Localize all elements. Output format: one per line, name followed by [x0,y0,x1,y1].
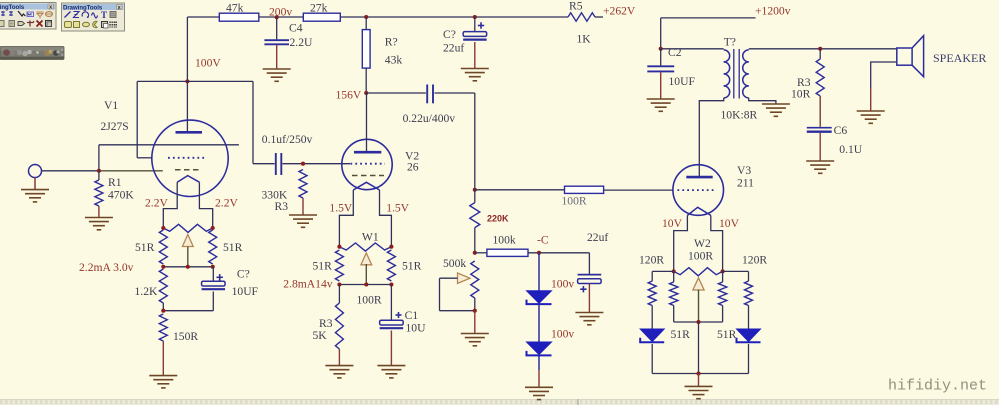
svg-text:100R: 100R [357,293,382,306]
svg-text:V3: V3 [737,164,751,177]
svg-text:W2: W2 [694,237,711,250]
svg-text:220K: 220K [487,214,509,224]
svg-text:2.2mA 3.0v: 2.2mA 3.0v [79,261,134,274]
svg-text:5K: 5K [313,329,328,342]
svg-text:2.2U: 2.2U [290,36,313,49]
svg-text:51R: 51R [313,260,333,273]
svg-text:100R: 100R [562,195,587,208]
svg-text:22uf: 22uf [587,231,608,244]
svg-text:DrawingTools: DrawingTools [0,5,25,11]
svg-text:R5: R5 [569,0,583,13]
svg-text:150R: 150R [173,330,198,343]
svg-text:1.2K: 1.2K [135,285,158,298]
svg-text:0.1uf/250v: 0.1uf/250v [262,133,313,146]
svg-text:R3: R3 [275,200,289,213]
svg-text:27k: 27k [310,2,328,15]
svg-text:C6: C6 [834,124,848,137]
svg-text:2.2V: 2.2V [215,197,238,210]
svg-text:100k: 100k [493,234,516,247]
svg-text:100v: 100v [551,327,574,340]
svg-text:100v: 100v [551,278,574,291]
svg-text:200v: 200v [269,6,292,19]
svg-text:2J27S: 2J27S [101,121,129,133]
svg-text:+1200v: +1200v [755,5,791,18]
svg-text:2.2V: 2.2V [145,197,168,210]
svg-text:51R: 51R [223,241,243,254]
svg-text:+262V: +262V [603,5,636,18]
svg-text:47k: 47k [226,2,244,15]
svg-text:T?: T? [724,35,736,48]
svg-text:1.5V: 1.5V [386,202,409,215]
svg-text:SPEAKER: SPEAKER [933,51,986,65]
svg-text:C4: C4 [289,22,303,35]
svg-text:10UF: 10UF [232,285,259,298]
svg-text:0.1U: 0.1U [839,143,862,156]
svg-text:51R: 51R [671,328,691,341]
svg-text:51R: 51R [135,241,155,254]
svg-text:-C: -C [537,234,549,247]
svg-text:470K: 470K [108,189,134,202]
svg-text:R1: R1 [108,176,122,189]
svg-text:100R: 100R [688,250,713,263]
svg-text:10V: 10V [719,217,740,230]
svg-text:10V: 10V [662,217,683,230]
svg-text:51R: 51R [717,328,737,341]
svg-text:0.22u/400v: 0.22u/400v [403,112,456,125]
svg-text:C1: C1 [405,309,419,322]
svg-text:W1: W1 [362,231,379,244]
svg-text:120R: 120R [742,254,767,267]
svg-text:22uf: 22uf [443,42,464,55]
svg-text:10R: 10R [791,88,811,101]
svg-text:10UF: 10UF [669,75,696,88]
svg-text:1K: 1K [577,33,592,46]
svg-text:211: 211 [737,177,754,190]
svg-text:10U: 10U [406,322,427,335]
svg-text:500k: 500k [443,257,466,270]
svg-text:156V: 156V [336,89,362,102]
svg-text:10K:8R: 10K:8R [721,109,758,122]
svg-text:T: T [101,10,107,20]
svg-text:hifidiy.net: hifidiy.net [888,378,987,395]
svg-text:C2: C2 [668,46,682,59]
svg-text:R?: R? [385,36,398,49]
svg-text:120R: 120R [639,254,664,267]
svg-text:26: 26 [407,161,419,174]
svg-text:100V: 100V [195,57,221,70]
svg-text:DrawingTools: DrawingTools [63,5,103,11]
svg-text:51R: 51R [402,260,422,273]
svg-text:V1: V1 [104,99,118,112]
svg-text:43k: 43k [385,54,403,67]
svg-text:1.5V: 1.5V [329,202,352,215]
svg-text:2.8mA14v: 2.8mA14v [283,277,332,290]
svg-text:C?: C? [237,268,250,281]
svg-text:C?: C? [443,28,456,41]
